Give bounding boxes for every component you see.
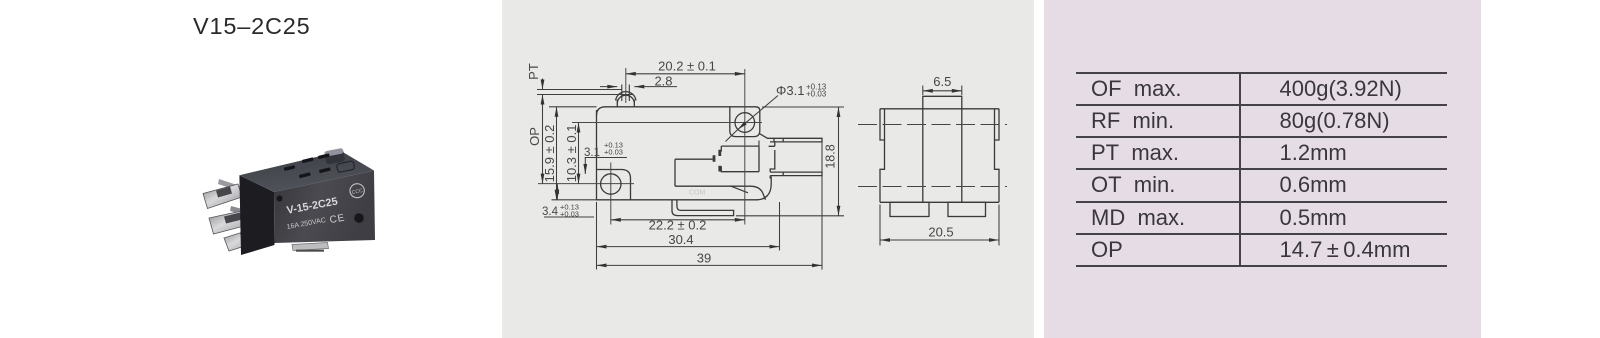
svg-text:3.4: 3.4 bbox=[542, 206, 559, 218]
svg-text:6.5: 6.5 bbox=[933, 74, 951, 89]
svg-text:OP: OP bbox=[527, 127, 542, 146]
svg-text:22.2 ± 0.2: 22.2 ± 0.2 bbox=[649, 218, 707, 233]
svg-text:39: 39 bbox=[697, 251, 711, 266]
svg-text:20.5: 20.5 bbox=[928, 225, 953, 240]
svg-text:10.3 ± 0.1: 10.3 ± 0.1 bbox=[564, 125, 579, 183]
svg-text:15.9 ± 0.2: 15.9 ± 0.2 bbox=[542, 125, 557, 183]
svg-text:+0.03: +0.03 bbox=[604, 148, 623, 157]
svg-text:3.1: 3.1 bbox=[584, 147, 600, 159]
svg-text:18.8: 18.8 bbox=[824, 144, 838, 168]
svg-text:20.2 ± 0.1: 20.2 ± 0.1 bbox=[658, 59, 716, 74]
svg-text:Φ3.1: Φ3.1 bbox=[776, 83, 804, 98]
svg-text:COM: COM bbox=[689, 190, 706, 197]
svg-text:PT: PT bbox=[526, 63, 541, 80]
svg-text:+0.03: +0.03 bbox=[806, 90, 827, 99]
svg-text:+0.03: +0.03 bbox=[560, 210, 579, 219]
svg-text:2.8: 2.8 bbox=[654, 74, 672, 89]
svg-text:30.4: 30.4 bbox=[668, 232, 693, 247]
